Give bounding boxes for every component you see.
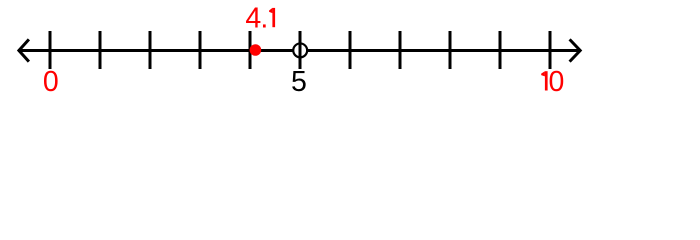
svg-text:4: 4 xyxy=(245,3,261,35)
svg-text:0: 0 xyxy=(548,66,564,98)
svg-text:0: 0 xyxy=(43,66,59,98)
svg-text:5: 5 xyxy=(291,66,307,98)
svg-text:.: . xyxy=(260,3,268,35)
